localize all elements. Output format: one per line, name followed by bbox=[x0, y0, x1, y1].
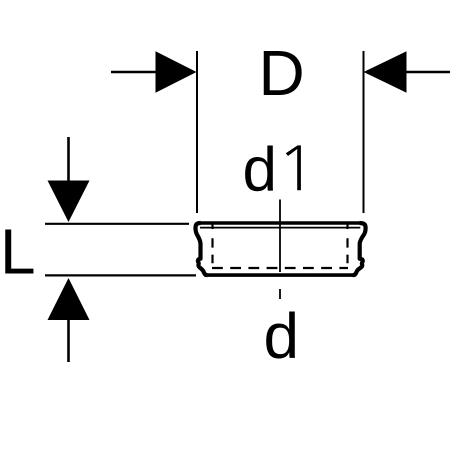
dimension D arrow left stem bbox=[111, 71, 156, 73]
svg-text:d: d bbox=[264, 300, 300, 372]
ring body bottom face bbox=[205, 273, 355, 277]
hidden bore line left bbox=[211, 238, 213, 263]
centerline dash below part bbox=[279, 289, 281, 299]
ring body left edge profile bbox=[196, 223, 208, 275]
bore edge left (visible) bbox=[211, 224, 213, 230]
dimension L arrow down stem bbox=[67, 137, 70, 181]
dimension L arrow up stem bbox=[67, 320, 70, 362]
dimension L top line bbox=[45, 223, 189, 225]
inner chamfer line (top) bbox=[200, 227, 360, 229]
svg-text:D: D bbox=[259, 37, 305, 109]
dimension D arrowhead right bbox=[364, 51, 407, 92]
dimension L bottom line bbox=[45, 274, 196, 276]
dimension D arrow right stem bbox=[406, 71, 450, 73]
bore edge right (visible) bbox=[346, 224, 348, 230]
ring body right edge profile bbox=[353, 223, 366, 275]
ring body top face bbox=[198, 221, 362, 225]
dimension L arrowhead up bbox=[48, 278, 90, 320]
label d1 digit 1 bbox=[286, 145, 301, 190]
dimension L arrowhead down bbox=[48, 181, 90, 223]
hidden bore line right bbox=[346, 238, 348, 263]
svg-text:d: d bbox=[243, 136, 277, 205]
svg-text:L: L bbox=[0, 216, 36, 288]
hidden bore bottom line bbox=[212, 267, 348, 269]
extension line left (outer diameter D) bbox=[196, 51, 198, 213]
dimension D arrowhead left bbox=[156, 51, 197, 92]
extension line right (outer diameter D) bbox=[363, 51, 365, 213]
centerline solid segment bbox=[279, 200, 281, 273]
